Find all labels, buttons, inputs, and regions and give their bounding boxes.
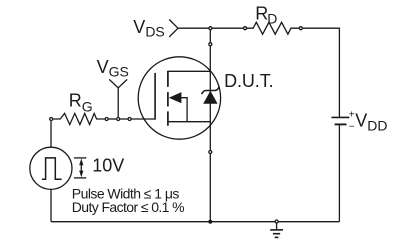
transistor Q1 gate bar [154, 73, 156, 120]
node MOSFET source pin [209, 151, 212, 154]
wire V_DS probe line [178, 27, 208, 29]
diode D1 zener cathode bar [202, 87, 220, 95]
wire top rail node to RD [212, 27, 243, 29]
resistor RG [53, 113, 105, 124]
transistor Q1 source tap [168, 121, 211, 123]
svg-text:VDS: VDS [133, 17, 164, 40]
svg-text:10V: 10V [92, 156, 124, 176]
transistor Q1 body arrow head [169, 92, 182, 103]
svg-text:RG: RG [69, 90, 93, 114]
node VGS junction [117, 118, 120, 121]
wire gate rail segment 2 [120, 118, 128, 120]
node RD right terminal [299, 27, 302, 30]
pulse generator circle [30, 147, 72, 189]
wire pulse generator to gate rail [50, 121, 52, 147]
wire gate rail segment 1 [109, 118, 117, 120]
svg-text:D.U.T.: D.U.T. [224, 71, 273, 91]
diode D1 body diode triangle [203, 91, 217, 104]
svg-text:VDD: VDD [355, 110, 387, 133]
node RD left terminal [244, 27, 247, 30]
junction dot source/bottom rail [208, 220, 212, 224]
battery VDD negative plate [335, 123, 347, 125]
node ground junction [275, 220, 278, 223]
10V arrow head down [79, 171, 83, 178]
node RG left terminal [50, 118, 53, 121]
svg-text:+: + [349, 110, 355, 121]
wire left riser to pulse generator [50, 190, 52, 222]
10V arrow head up [79, 158, 83, 165]
ground bar 3 [275, 236, 279, 238]
ground bar 1 [270, 229, 283, 231]
wire source vertical to bottom rail [209, 154, 211, 222]
transistor Q1 drain tap [168, 70, 211, 72]
node RG right terminal [105, 118, 108, 121]
resistor RD [247, 22, 299, 34]
10V arrow shaft [80, 162, 82, 175]
ground bar 2 [273, 233, 280, 235]
node MOSFET drain pin [209, 43, 212, 46]
wire V_GS probe line [117, 88, 119, 117]
wire gate lead into MOSFET [132, 118, 156, 120]
wire drain through MOSFET [209, 46, 211, 150]
battery VDD positive plate [332, 116, 350, 118]
transistor Q1 body arrow line [181, 98, 188, 122]
10V arrow top tick [74, 157, 86, 159]
svg-text:−: − [349, 122, 355, 133]
ground stem [276, 223, 278, 230]
svg-text:Duty Factor ≤ 0.1 %: Duty Factor ≤ 0.1 % [72, 199, 184, 215]
wire bottom rail [51, 221, 339, 223]
transistor Q1 MOSFET body circle D.U.T. [138, 57, 220, 139]
probe chevron V_GS [109, 79, 127, 87]
svg-text:VGS: VGS [97, 57, 129, 80]
wire drain vertical top [209, 30, 211, 43]
wire battery to bottom rail [338, 124, 340, 221]
pulse generator waveform [42, 158, 62, 179]
10V arrow bottom tick [74, 177, 86, 179]
wire RD to top-right corner and down to battery [303, 28, 340, 117]
transistor Q1 channel dashed line [167, 71, 169, 126]
node A top rail junction [209, 27, 212, 30]
node MOSFET gate pin [128, 118, 131, 121]
probe chevron V_DS [169, 20, 178, 37]
svg-text:RD: RD [255, 3, 277, 26]
